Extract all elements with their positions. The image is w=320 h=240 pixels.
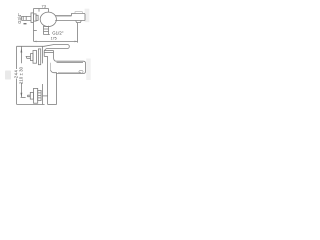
- small tick on projection line: [34, 29, 37, 31]
- pipe bottom: [48, 104, 57, 106]
- aerator ellipse (side view): [79, 70, 83, 73]
- tab on spout end cap: [75, 12, 82, 14]
- lower threaded stack: [38, 90, 41, 100]
- spout joint notch curve: [51, 70, 57, 73]
- body right edge with fillet to spout: [54, 51, 57, 62]
- body top (side view): [44, 50, 53, 52]
- pipe right edge (below spout): [56, 74, 58, 105]
- spout inner bottom line: [58, 71, 81, 73]
- spout inner mid line (top view): [56, 16, 72, 18]
- body front / pipe left edge: [47, 56, 49, 104]
- svg-text:73: 73: [42, 3, 47, 8]
- svg-text:G3/4": G3/4": [17, 13, 22, 24]
- svg-text:G1/2": G1/2": [52, 30, 64, 35]
- body back edge: [43, 51, 45, 57]
- dimension 73: right extension tick: [48, 9, 50, 13]
- body trim ring line: [44, 51, 53, 53]
- spout slab (side view): [56, 61, 85, 73]
- upper escutcheon (side view): [33, 51, 37, 64]
- dimension 73: line: [34, 8, 49, 10]
- dimension 73: mid extension tick: [38, 9, 40, 12]
- dim line 244 (outer, broken for text): [16, 46, 18, 104]
- lever pivot diagonal: [44, 49, 46, 51]
- spout top edge (top view): [55, 15, 71, 17]
- arrowheads 175: [34, 41, 78, 43]
- upper fitting axis stub: [25, 55, 28, 57]
- body circle (top view): [40, 12, 56, 26]
- escutcheon (top view): [31, 13, 34, 23]
- shower outlet ladder below body (top view): [44, 26, 50, 35]
- projection line from escutcheon down to 175 dim: [33, 22, 35, 41]
- lower union nut: [30, 92, 33, 99]
- spout end cap (top view): [72, 14, 86, 21]
- upper union nut: [31, 54, 34, 61]
- dim 210±30 tick at lower outlet axis: [21, 96, 26, 98]
- gray patch right of spout end (top view): [85, 9, 90, 23]
- top extension line (product top to dims): [17, 45, 45, 47]
- svg-text:175: 175: [51, 37, 57, 41]
- flange step 2 / neck (top view): [36, 15, 38, 20]
- body front inner edge: [50, 63, 52, 70]
- dimension 175 line: [34, 40, 78, 42]
- wall face line (lower segment): [42, 84, 44, 105]
- gray square swatch at far left: [5, 71, 11, 80]
- gray patch right of spout (side view): [86, 59, 91, 81]
- spout bottom edge (top view): [55, 20, 85, 22]
- aerator below spout end (top view): [76, 21, 82, 23]
- lower outlet axis line: [43, 95, 48, 97]
- upper union stub (side view): [27, 56, 31, 58]
- arrow down on inner dim line: [21, 93, 23, 98]
- dim line 210±30 (inner, broken for text): [20, 46, 22, 97]
- wall face line (upper segment): [42, 46, 44, 63]
- lever handle (side view): [44, 45, 69, 49]
- lower union stub (side view): [28, 95, 31, 97]
- tiny smudge text under union: [24, 23, 27, 24]
- wall strip (upper): [38, 49, 40, 65]
- bottom boundary line: [17, 104, 45, 106]
- dimension 73: left extension tick: [33, 9, 35, 13]
- flange step 1 (top view): [34, 14, 37, 21]
- extension line from spout tip down to 175 dim: [77, 23, 79, 43]
- spout inner top line: [57, 62, 84, 64]
- body step: [44, 55, 47, 57]
- svg-text:210 ± 30: 210 ± 30: [19, 66, 24, 84]
- union stub G3/4 (top view): [22, 16, 32, 20]
- arrow up on inner dim line: [21, 48, 23, 53]
- background: [0, 0, 98, 114]
- lower escutcheon (side view): [34, 88, 38, 103]
